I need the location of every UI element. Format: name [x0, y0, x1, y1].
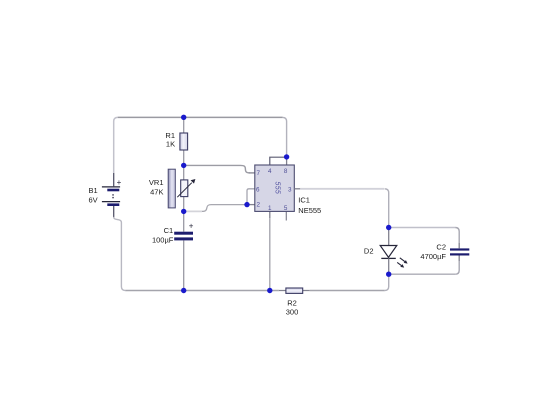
- capacitor C2 lower plate: [450, 253, 469, 255]
- svg-text:+: +: [117, 178, 122, 187]
- svg-text:555: 555: [274, 182, 281, 195]
- potentiometer VR1 arrowhead: [191, 179, 196, 184]
- node: pin4/pin8: [284, 154, 289, 159]
- LED D2 arrowhead 1: [404, 260, 408, 264]
- pin 1 stub: [269, 211, 271, 218]
- resistor R1 leads: [183, 117, 185, 165]
- wire: pin 3 to LED anode: [300, 188, 384, 190]
- node: pin6/pin2: [244, 202, 249, 207]
- LED D2 anode lead: [388, 228, 390, 246]
- node: C1/bottom rail: [181, 288, 186, 293]
- resistor R2 stubs: [279, 290, 310, 292]
- node: top rail / R1: [181, 115, 186, 120]
- svg-text:1: 1: [268, 205, 272, 212]
- svg-text:4: 4: [268, 168, 272, 175]
- svg-text:IC1: IC1: [298, 196, 310, 205]
- capacitor C2 bottom lead: [458, 256, 460, 262]
- battery dashes: [112, 194, 114, 195]
- pin 7 stub: [249, 172, 255, 174]
- svg-text:4700µF: 4700µF: [420, 252, 446, 261]
- wire: bottom rail corner up to LED cathode node: [385, 274, 389, 290]
- wire: top rail drop to pin8 node: [283, 117, 287, 156]
- wire: left rail battery+ up: [114, 117, 118, 173]
- svg-text:NE555: NE555: [298, 206, 321, 215]
- LED D2 cathode bar: [381, 257, 396, 259]
- wire: bottom rail left section: [125, 290, 279, 292]
- potentiometer VR1 leads: [183, 165, 185, 211]
- svg-text:B1: B1: [89, 186, 98, 195]
- svg-text:1K: 1K: [166, 140, 175, 149]
- wire: junction A to pin 7: [184, 165, 250, 173]
- capacitor C1 lower plate: [174, 237, 193, 240]
- pin 3 stub: [294, 188, 300, 190]
- svg-text:300: 300: [286, 308, 299, 317]
- svg-text:3: 3: [288, 186, 292, 193]
- LED D2 triangle: [380, 246, 397, 258]
- svg-text:100µF: 100µF: [152, 235, 174, 244]
- resistor R2: [286, 288, 303, 293]
- svg-text:7: 7: [256, 170, 260, 177]
- svg-text:R1: R1: [165, 131, 175, 140]
- wire: pin 3 drop to LED anode node: [385, 189, 389, 228]
- pin 5 stub: [285, 211, 287, 220]
- wire: R2 to LED cathode corner: [310, 290, 385, 292]
- LED D2 arrowhead 2: [400, 264, 404, 268]
- capacitor C2 plates: [450, 248, 469, 250]
- wire: VR1 wiper net to pin 2: [184, 210, 202, 212]
- svg-text:VR1: VR1: [149, 178, 164, 187]
- battery dash 2: [112, 197, 114, 198]
- capacitor C1 leads: [183, 211, 185, 290]
- node: R1/VR1/pin7: [181, 163, 186, 168]
- wire: C2 bottom to LED cathode: [455, 261, 459, 274]
- op-amp timer IC1 body: [255, 165, 294, 211]
- node: VR1/C1/pin2: [181, 209, 186, 214]
- svg-text:8: 8: [284, 168, 288, 175]
- battery B1 cell 1: [102, 186, 120, 188]
- svg-text:5: 5: [284, 205, 288, 212]
- battery B1 bottom lead: [113, 206, 115, 217]
- svg-text:6: 6: [256, 186, 260, 193]
- svg-text:C2: C2: [436, 242, 446, 251]
- svg-text:2: 2: [256, 202, 260, 209]
- potentiometer VR1 element: [181, 180, 188, 197]
- wire: pin4 up to pin8 junction: [270, 157, 287, 165]
- LED D2 arrows: [400, 258, 405, 262]
- potentiometer VR1 arrow: [177, 183, 192, 198]
- pin 2 stub: [249, 204, 255, 206]
- wire: pin 6 down to pin2 net: [247, 189, 255, 205]
- wire: battery- jog down to bottom rail: [114, 217, 126, 291]
- wire: pin8 stub: [286, 157, 288, 165]
- wire: C2 bottom return to LED cathode: [389, 273, 456, 275]
- svg-text:+: +: [189, 221, 194, 230]
- battery B1 cell 2: [102, 201, 120, 203]
- wire: top rail horizontal: [118, 116, 283, 118]
- wire: C2 top corner down: [455, 228, 459, 244]
- battery B1 top lead: [113, 173, 115, 186]
- LED D2 arrow 2: [397, 262, 401, 265]
- svg-text:R2: R2: [287, 299, 297, 308]
- resistor R1: [180, 133, 188, 150]
- svg-text:D2: D2: [364, 246, 374, 255]
- wire: LED anode to C2: [389, 227, 456, 229]
- LED D2 cathode lead: [388, 258, 390, 274]
- potentiometer VR1 slider body: [168, 169, 175, 208]
- capacitor C1 plates: [174, 232, 193, 235]
- wire: pin 1 to bottom rail: [269, 218, 271, 290]
- svg-text:C1: C1: [164, 226, 174, 235]
- node: LED anode / C2: [386, 225, 391, 230]
- battery B1 cell 2 short plate: [107, 203, 119, 206]
- svg-text:6V: 6V: [89, 195, 98, 204]
- capacitor C2 top lead: [458, 243, 460, 248]
- wire: jog up to pin 2: [202, 205, 249, 212]
- svg-text:47K: 47K: [150, 187, 163, 196]
- node: pin1/bottom rail: [267, 288, 272, 293]
- battery B1 cell 1 short plate: [107, 189, 119, 192]
- node: LED cathode / C2: [386, 272, 391, 277]
